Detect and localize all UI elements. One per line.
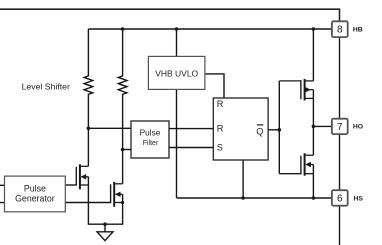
svg-text:Filter: Filter [143, 140, 159, 147]
svg-text:Q: Q [256, 126, 263, 136]
svg-text:S: S [217, 142, 223, 152]
svg-text:Pulse: Pulse [24, 184, 46, 194]
svg-text:7: 7 [337, 122, 343, 133]
svg-text:Pulse: Pulse [140, 128, 161, 138]
svg-text:6: 6 [337, 193, 343, 204]
svg-text:HS: HS [354, 195, 364, 202]
svg-text:8: 8 [337, 25, 343, 36]
svg-text:Generator: Generator [15, 194, 55, 204]
svg-text:HB: HB [353, 26, 363, 33]
svg-text:Level Shifter: Level Shifter [22, 81, 70, 91]
svg-text:R: R [217, 124, 224, 134]
svg-text:R: R [217, 99, 224, 109]
svg-text:HO: HO [353, 124, 363, 131]
svg-text:VHB UVLO: VHB UVLO [155, 68, 198, 78]
